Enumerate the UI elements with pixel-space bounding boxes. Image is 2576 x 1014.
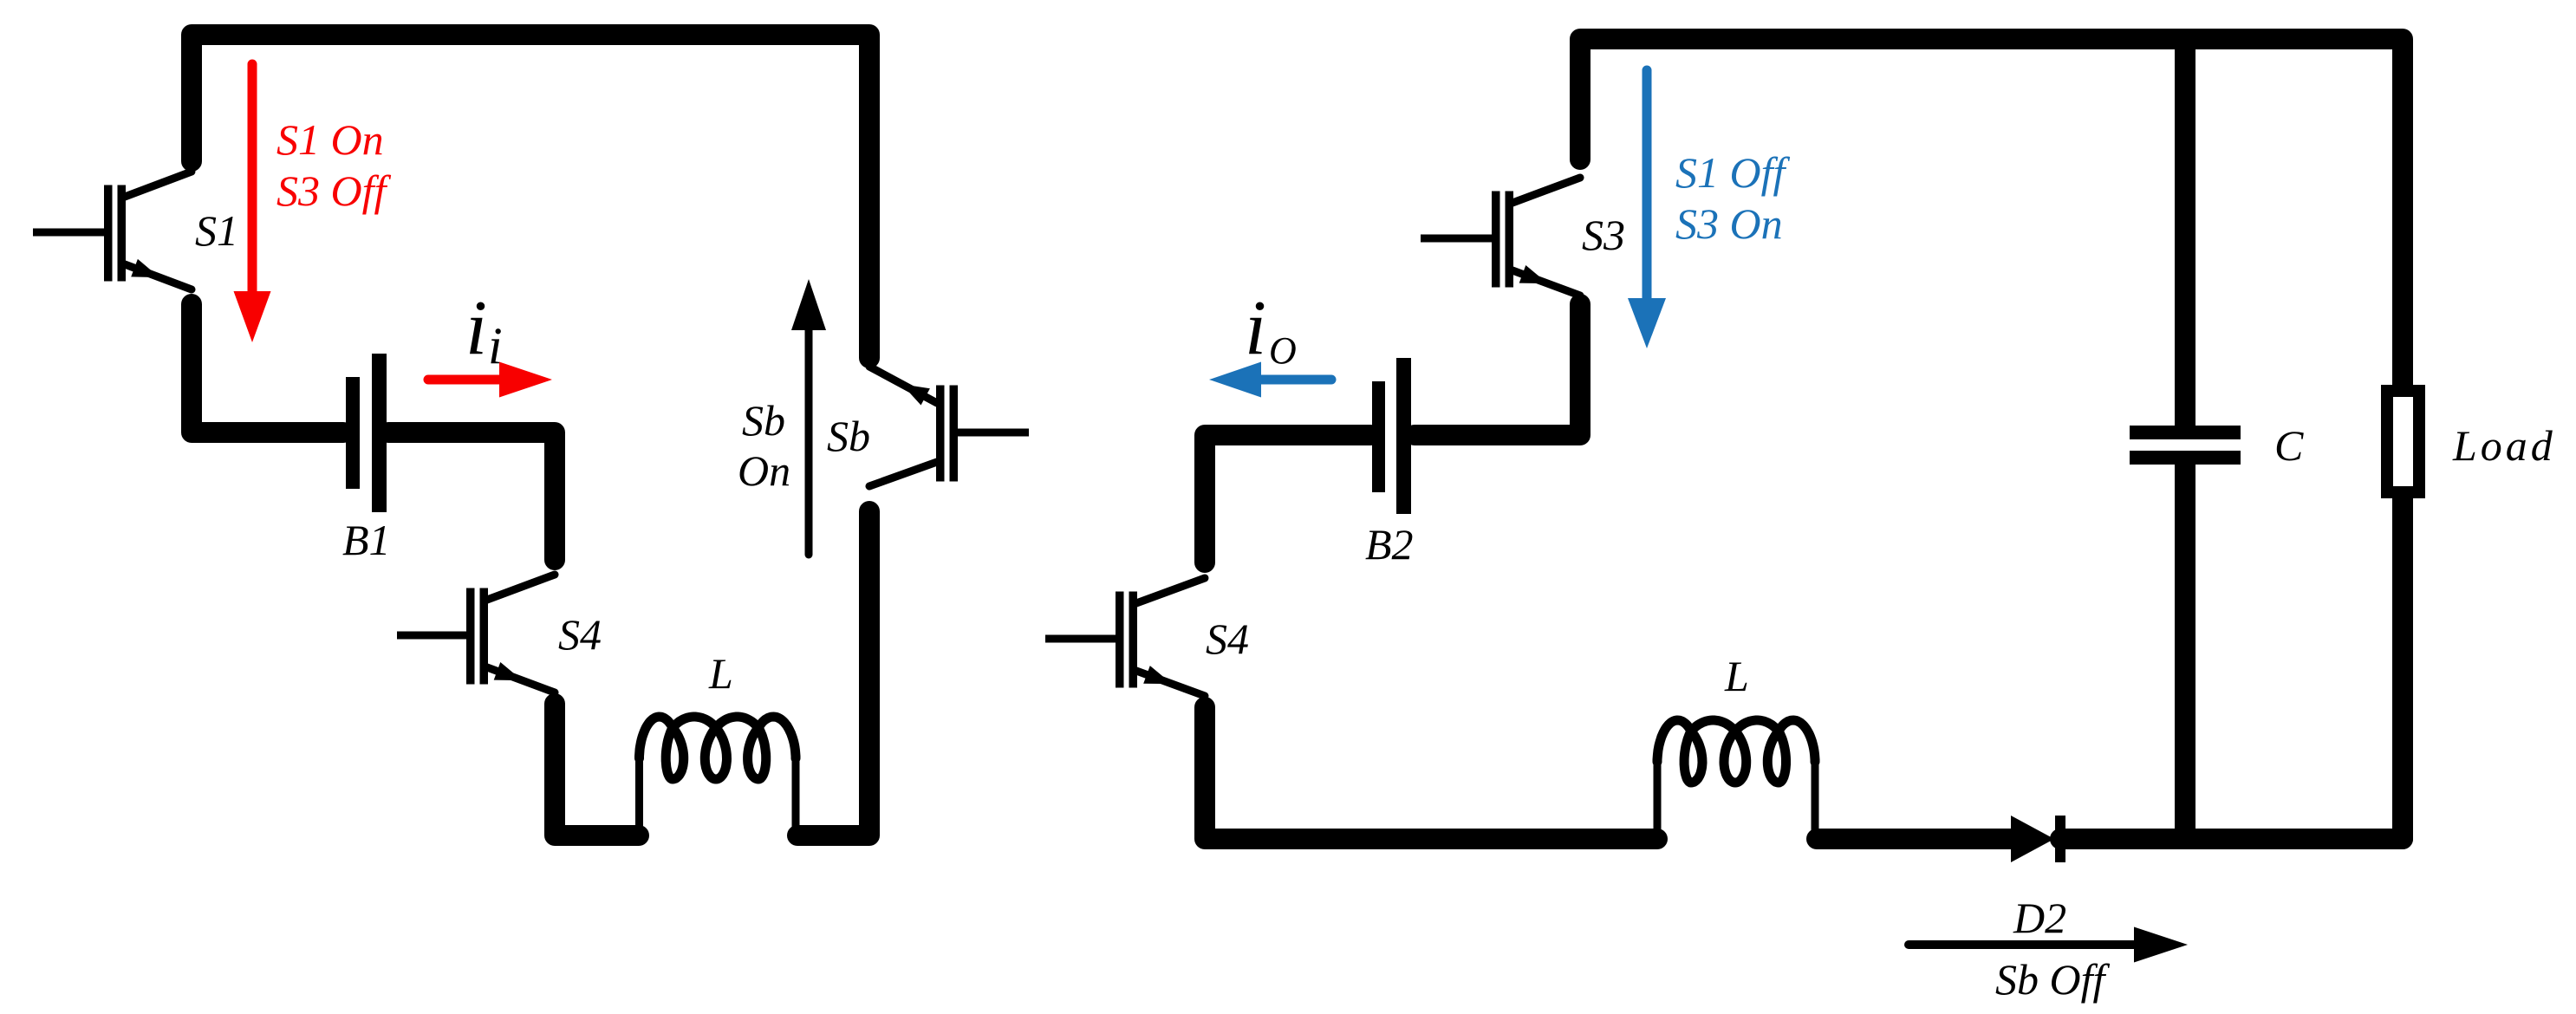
wire: coil to diode xyxy=(1817,829,2016,849)
svg-text:S3 On: S3 On xyxy=(1675,199,1783,248)
transistor S4b gate lead xyxy=(1045,635,1116,643)
battery B1 plate 1 xyxy=(346,377,360,489)
battery B2 plate 2 xyxy=(1396,358,1411,514)
svg-text:B2: B2 xyxy=(1365,520,1414,569)
red arrow S1 current xyxy=(248,64,257,295)
svg-text:S1: S1 xyxy=(195,206,238,255)
transistor S4 collector lead xyxy=(487,575,555,600)
transistor S1 emitter arrow xyxy=(131,259,159,277)
transistor S4 emitter lead xyxy=(487,667,555,692)
wire: S4 emitter to bottom rail left segment xyxy=(555,704,639,835)
transistor S4b collector lead xyxy=(1136,578,1205,603)
svg-text:i: i xyxy=(488,317,503,374)
wire: S3 emitter down to B2 xyxy=(1415,304,1580,435)
red arrow i_i xyxy=(428,375,503,385)
transistor S3 emitter arrow xyxy=(1519,265,1548,283)
load resistor xyxy=(2387,391,2419,492)
wire: diode to bottom-right corner xyxy=(2060,829,2403,849)
transistor S4 emitter arrow xyxy=(494,662,523,680)
transistor S4b emitter arrow xyxy=(1143,666,1172,684)
svg-text:S4: S4 xyxy=(558,610,602,659)
svg-text:O: O xyxy=(1269,329,1297,372)
wire: B1 to S4 collector xyxy=(388,432,555,560)
transistor S4 gate lead xyxy=(397,632,466,640)
transistor Sb collector lead (bottom) xyxy=(869,462,937,486)
transistor Sb gate lead xyxy=(958,429,1029,437)
transistor S1 gate lead xyxy=(33,229,104,237)
svg-text:Sb Off: Sb Off xyxy=(1995,955,2111,1004)
transistor Sb gate bars xyxy=(950,386,959,482)
transistor S4 gate bars xyxy=(466,588,475,685)
svg-text:S3 Off: S3 Off xyxy=(276,166,392,215)
capacitor C plate 1 xyxy=(2130,426,2241,439)
svg-text:S3: S3 xyxy=(1582,211,1625,259)
svg-text:S1 Off: S1 Off xyxy=(1675,148,1791,197)
inductor L (right) legs xyxy=(1654,762,1662,839)
transistor S1 emitter lead xyxy=(125,264,192,289)
transistor S3 gate bars xyxy=(1492,192,1500,288)
svg-text:i: i xyxy=(465,285,487,371)
capacitor C plate 2 xyxy=(2130,451,2241,465)
wire: capacitor branch xyxy=(2175,49,2195,429)
svg-text:B1: B1 xyxy=(342,516,391,564)
inductor L (left) coil xyxy=(640,717,797,779)
svg-text:C: C xyxy=(2274,421,2304,470)
wire: B2 to S4 collector (right) xyxy=(1205,435,1370,562)
svg-text:S4: S4 xyxy=(1206,614,1249,663)
svg-text:L: L xyxy=(1724,652,1749,700)
svg-text:i: i xyxy=(1245,285,1266,371)
arrow D2 conduction xyxy=(1909,940,2148,949)
wire: load branch lower xyxy=(2193,497,2403,839)
diode D2 triangle xyxy=(2011,816,2054,862)
wire: right circuit top rail and stubs xyxy=(1580,39,2403,387)
transistor S3 emitter lead xyxy=(1512,270,1580,296)
transistor S3 collector lead xyxy=(1512,178,1580,203)
blue arrow S3 current xyxy=(1643,70,1652,302)
svg-text:Sb: Sb xyxy=(742,396,785,445)
wire: S4 emitter to bottom rail (right circuit) xyxy=(1205,707,1657,839)
black arrow Sb current (up) xyxy=(805,328,813,555)
diode D2 bar xyxy=(2055,816,2065,862)
wire: left circuit top rail and side stubs xyxy=(192,35,869,358)
svg-text:Load: Load xyxy=(2452,421,2556,470)
wire: bottom rail right segment to Sb xyxy=(797,511,869,835)
transistor S4b emitter lead xyxy=(1136,671,1205,696)
transistor S1 gate bars xyxy=(104,185,113,282)
inductor L (right) coil xyxy=(1657,720,1815,783)
battery B2 plate 1 xyxy=(1372,381,1385,492)
svg-text:D2: D2 xyxy=(2013,894,2066,942)
transistor S1 collector lead xyxy=(125,172,192,197)
svg-text:Sb: Sb xyxy=(827,412,870,460)
transistor S4b gate bars xyxy=(1116,592,1124,688)
svg-text:S1 On: S1 On xyxy=(276,115,384,164)
wire: S1 emitter down to B1 xyxy=(192,304,343,432)
svg-text:L: L xyxy=(708,649,733,698)
transistor Sb emitter arrow xyxy=(901,384,930,405)
transistor Sb emitter lead (top) xyxy=(869,367,937,403)
blue arrow i_o xyxy=(1259,375,1331,385)
inductor L (left) legs xyxy=(635,758,643,835)
transistor S3 gate lead xyxy=(1421,235,1492,243)
svg-text:On: On xyxy=(738,446,790,495)
battery B1 plate 2 xyxy=(372,354,387,512)
